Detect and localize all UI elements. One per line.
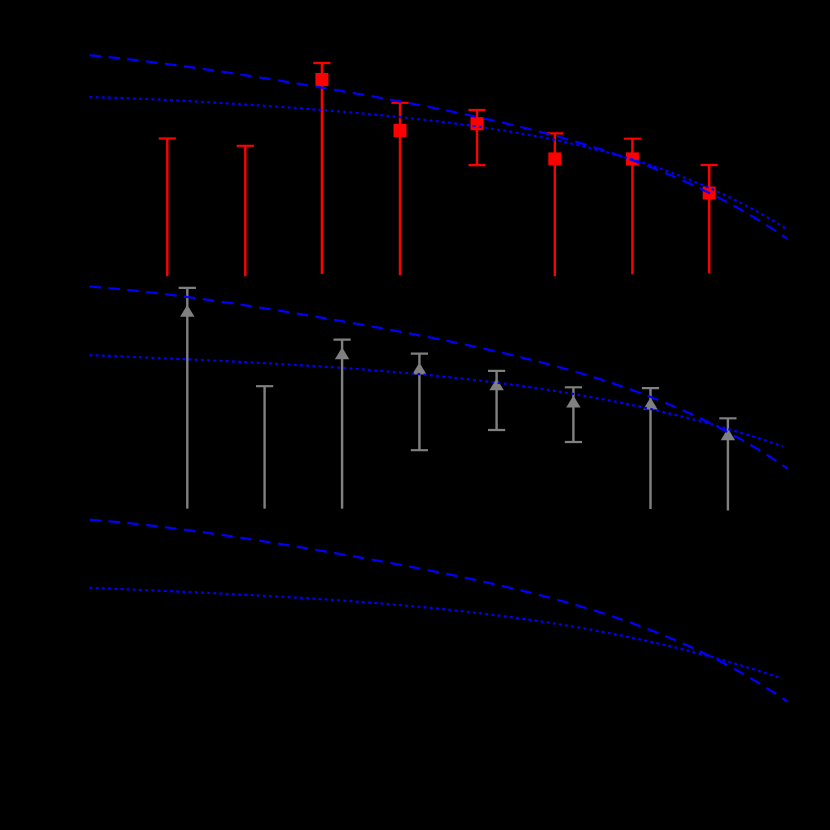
red errorbar point 6 with square marker — [546, 133, 563, 276]
red errorbar point 4 with square marker — [391, 103, 408, 275]
bottom dotted model curve — [90, 588, 783, 679]
red errorbar point 7 with square marker — [624, 139, 641, 275]
gray errorbar point 6 with triangle marker (capped both ends) — [565, 387, 582, 442]
gray errorbar point 3 with triangle marker — [334, 340, 351, 509]
top dotted model curve — [90, 97, 786, 228]
bottom dashed model curve — [90, 520, 788, 702]
gray errorbar point 7 with triangle marker — [642, 388, 659, 509]
red errorbar point 8 with square marker — [701, 165, 718, 273]
red errorbar point 5 with square marker (capped both ends) — [468, 110, 485, 165]
red errorbar point 2 (upper limit, no marker) — [237, 146, 254, 276]
gray errorbar point 4 with triangle marker (capped both ends) — [411, 354, 428, 451]
top dashed model curve — [90, 55, 788, 238]
middle dashed model curve — [90, 287, 788, 469]
gray errorbar point 2 (no marker) — [256, 386, 273, 508]
gray errorbar point 1 with triangle marker — [179, 288, 196, 509]
middle dotted model curve — [90, 355, 784, 446]
red errorbar point 1 (upper limit, no marker) — [159, 139, 176, 277]
red errorbar point 3 with square marker — [313, 63, 330, 274]
gray errorbar point 5 with triangle marker (capped both ends) — [488, 371, 505, 430]
gray errorbar point 8 with triangle marker — [719, 418, 736, 510]
